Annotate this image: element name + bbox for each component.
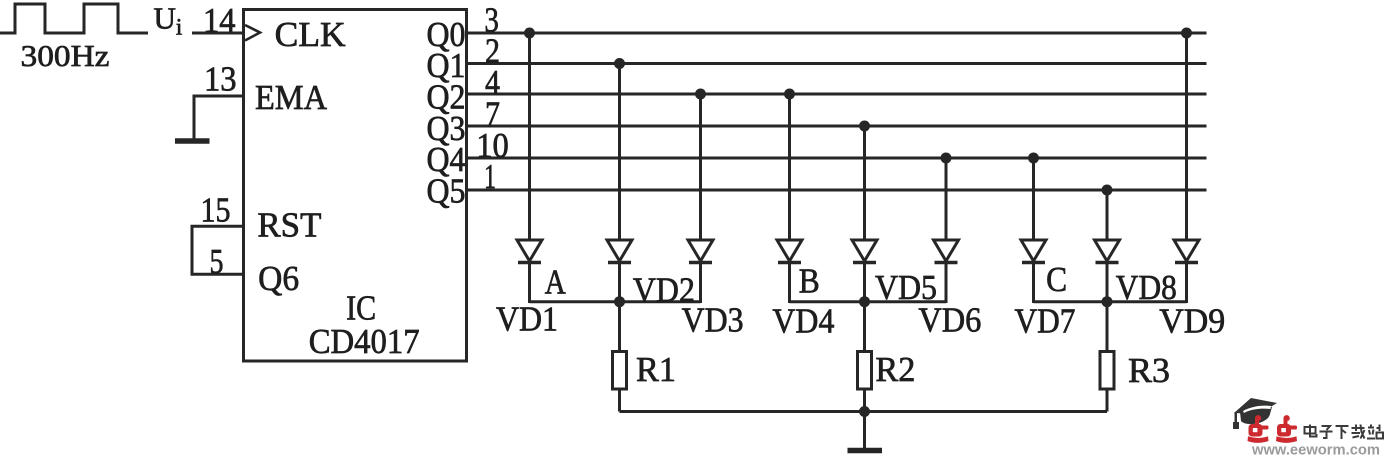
IC U1 CD4017 box	[244, 10, 467, 362]
watermark text dian	[1305, 425, 1317, 437]
diode VD3	[688, 94, 713, 303]
node B junction	[859, 296, 870, 307]
node Q2-VD4	[784, 89, 795, 100]
ground at bottom	[848, 412, 883, 451]
resistor R1	[613, 302, 627, 412]
watermark text xia	[1336, 426, 1349, 439]
wire bus Q2	[467, 93, 1207, 96]
diode VD9	[1174, 33, 1199, 303]
svg-text:EMA: EMA	[255, 78, 328, 117]
svg-text:VD9: VD9	[1159, 302, 1225, 341]
svg-text:VD1: VD1	[496, 300, 558, 339]
diode VD7	[1021, 158, 1046, 303]
clock signal square wave	[0, 4, 148, 33]
ground at EMA	[175, 138, 210, 144]
diode VD8	[1095, 190, 1120, 303]
svg-text:Ui: Ui	[154, 1, 183, 40]
svg-text:R2: R2	[875, 350, 915, 389]
svg-text:VD6: VD6	[918, 301, 981, 340]
watermark graduation cap icon	[1233, 398, 1277, 429]
node Q0-VD1	[524, 28, 535, 39]
clock input triangle CLK	[245, 25, 260, 41]
svg-text:13: 13	[204, 60, 237, 99]
node Q4-VD6	[941, 153, 952, 164]
node A junction	[614, 296, 625, 307]
watermark text zi	[1320, 426, 1333, 438]
wire group B common	[790, 300, 947, 303]
svg-text:RST: RST	[257, 206, 321, 245]
svg-text:B: B	[799, 261, 820, 300]
node Q1-VD2	[614, 58, 625, 69]
resistor R3	[1100, 302, 1114, 412]
svg-text:R1: R1	[636, 350, 676, 389]
svg-text:15: 15	[201, 190, 231, 229]
node Q3-VD5	[859, 121, 870, 132]
diode VD1	[517, 33, 542, 303]
svg-text:R3: R3	[1128, 351, 1170, 390]
watermark text zai	[1352, 425, 1365, 439]
diode VD2	[607, 64, 632, 304]
svg-text:CLK: CLK	[275, 15, 346, 54]
svg-text:300Hz: 300Hz	[21, 38, 110, 73]
wire bus Q1	[467, 62, 1207, 65]
wire RST pin 15 to Q6 pin 5 loop	[192, 226, 244, 274]
svg-text:A: A	[545, 263, 567, 302]
node Q0-VD9	[1181, 28, 1192, 39]
svg-text:C: C	[1046, 260, 1067, 299]
wire bus Q5	[467, 189, 1207, 192]
diode VD4	[777, 94, 802, 303]
svg-text:VD7: VD7	[1015, 302, 1076, 341]
node Q2-VD3	[695, 89, 706, 100]
svg-text:5: 5	[210, 242, 224, 281]
svg-text:CD4017: CD4017	[309, 322, 420, 361]
wire EMA pin 13	[194, 96, 244, 139]
wire group C common	[1034, 300, 1187, 303]
node Q5-VD8	[1102, 185, 1113, 196]
wire bus Q3	[467, 125, 1207, 128]
resistor R2	[858, 302, 872, 412]
wire bottom common	[620, 410, 1108, 413]
node bottom junction	[859, 406, 870, 417]
watermark chong character 2	[1276, 415, 1297, 443]
svg-text:VD3: VD3	[682, 301, 744, 340]
diode VD6	[934, 158, 959, 303]
svg-text:1: 1	[484, 157, 496, 196]
watermark text zhan	[1367, 425, 1383, 439]
wire bus Q0	[467, 32, 1207, 35]
wire bus Q4	[467, 157, 1207, 160]
svg-text:www.eeworm.com: www.eeworm.com	[1251, 443, 1380, 456]
wire Ui to CLK pin 14	[192, 32, 244, 35]
svg-text:14: 14	[203, 1, 236, 40]
node Q4-VD7	[1028, 153, 1039, 164]
diode VD5	[852, 126, 877, 303]
svg-text:Q5: Q5	[427, 172, 466, 211]
wire group A common	[530, 300, 701, 303]
watermark chong character 1	[1248, 415, 1269, 443]
svg-text:VD4: VD4	[772, 302, 834, 341]
node C junction	[1102, 296, 1113, 307]
svg-text:Q6: Q6	[258, 259, 299, 298]
